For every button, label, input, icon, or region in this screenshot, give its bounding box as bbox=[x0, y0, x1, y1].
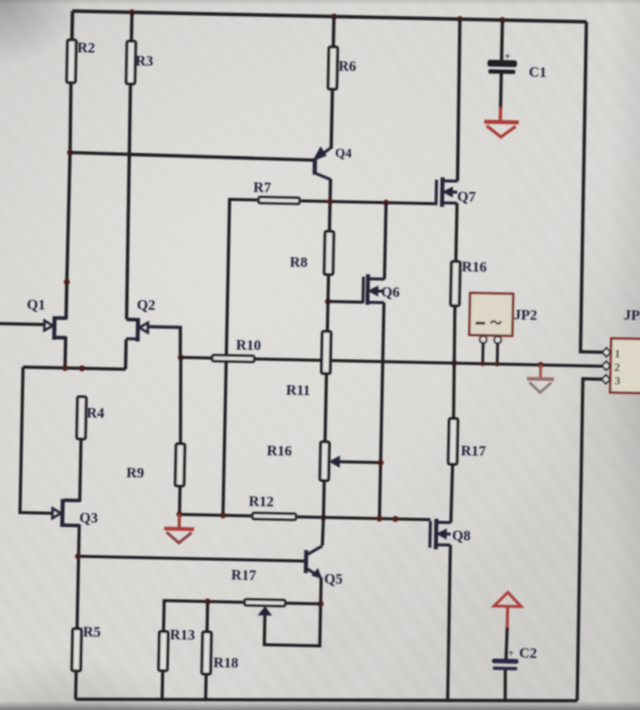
wire: R9 bottom to R12 ground row bbox=[178, 487, 182, 514]
ground under R9 bbox=[178, 514, 181, 528]
capacitor C2 (polarized electrolytic) bbox=[492, 658, 519, 663]
connector JP3 (3-pin header at right edge) bbox=[610, 338, 640, 393]
node junction output row / ground tap bbox=[538, 362, 544, 368]
resistor R5 (vertical) bbox=[72, 629, 81, 671]
wire: Q5 collector column from R12 node bbox=[322, 517, 323, 545]
resistor R17 (vertical) bbox=[448, 419, 458, 465]
wire: Q7 source down to R16 bbox=[456, 203, 457, 260]
wire: R5 bottom to bottom rail bbox=[74, 672, 78, 699]
transistor Q4 (PNP, emitter up to R6) bbox=[313, 158, 318, 174]
wire: R18 top lead bbox=[206, 602, 210, 631]
node junction tail row / Q1 source bbox=[62, 365, 68, 371]
node junction top rail / C1 bbox=[499, 17, 505, 23]
wire: R9 column from R10 node down to ground row bbox=[179, 357, 182, 442]
pin 2 of JP2 bbox=[494, 336, 501, 343]
transistor Q2 (JFET, gate right, mirrored) bbox=[136, 318, 140, 341]
wire: Q1 drain stub and up to node A bbox=[56, 284, 67, 318]
resistor R2 (vertical) bbox=[67, 40, 76, 83]
node junction Q2 gate / R10 / R9 top bbox=[178, 354, 184, 360]
resistor R11 (vertical) bbox=[321, 331, 330, 373]
resistor R12 (horizontal) bbox=[252, 513, 296, 520]
pin 1 of JP3 bbox=[602, 348, 611, 357]
node junction pot row / R18 top bbox=[205, 598, 211, 604]
wire: Q3 source to R5 top and Q5 base row bbox=[62, 525, 80, 627]
resistor R16 (vertical) bbox=[451, 262, 461, 306]
wire: Q7 drain column up to top rail bbox=[457, 19, 461, 181]
wire: Q5 emitter column down to wiper loop bbox=[264, 577, 321, 646]
wire: R4 bottom to Q3 drain bbox=[64, 440, 81, 500]
wire: R16 pot wiper to Q6 source column bbox=[339, 460, 380, 464]
node junction top rail / Q7 drain bbox=[457, 16, 463, 22]
node junction top rail / R3 bbox=[129, 9, 135, 15]
node junction tail row / R4 top bbox=[79, 365, 85, 371]
resistor R4 (vertical) bbox=[77, 397, 86, 439]
node junction R12 row / R7 column bbox=[220, 512, 226, 518]
node junction R8 bottom / Q6 gate / R11 top bbox=[325, 298, 331, 304]
wire: Q4 base wire from left column to Q4 bbox=[70, 153, 313, 161]
wire: R3 bottom down to Q2 drain (crosses Q4 base wire) bbox=[126, 85, 132, 319]
wire: R17 bottom to Q8 drain bbox=[451, 466, 453, 523]
wire: left rail from top rail down through R2 column to Q1 drain bbox=[70, 11, 74, 38]
wire: R7 net - left corner column down to R12 row bbox=[223, 199, 257, 516]
wire: Q2 gate lead right and down to R10 node bbox=[146, 327, 181, 358]
wire: C2 bottom lead to ground rail bbox=[505, 670, 506, 701]
potentiometer R17 (bottom, with wiper arrow) bbox=[245, 599, 286, 606]
resistor R10 (horizontal) bbox=[212, 355, 254, 362]
node junction output row / R16-R17 column bbox=[451, 360, 457, 366]
node junction Q3 source column / Q5 base wire bbox=[75, 553, 81, 559]
wire: R2 bottom down to Q4-base tap and Q1 drain bbox=[66, 84, 71, 318]
wire: Q3 gate lead and column up to tail row bbox=[20, 367, 56, 513]
node A on R2 column above Q1 bbox=[64, 279, 70, 285]
wire: pot R17 row from R13 top through pot to Q5 emitter column bbox=[164, 601, 321, 634]
node junction R12 row / R16 pot bottom / Q5 collector bbox=[320, 514, 326, 520]
transistor Q7 (MOSFET) bbox=[435, 180, 439, 205]
node junction R2 column / Q4 base wire bbox=[67, 149, 73, 155]
wire: top power rail bbox=[72, 11, 586, 22]
wire: right rail from top rail to JP3 pin1 bbox=[579, 22, 609, 352]
transistor Q8 (MOSFET) bbox=[428, 521, 432, 547]
wire: JP2 pin leads to output row bbox=[481, 343, 484, 364]
transistor Q6 (MOSFET) bbox=[361, 277, 365, 303]
node junction pot row / Q5 emitter column bbox=[318, 601, 324, 607]
resistor R18 (vertical) bbox=[202, 632, 211, 674]
resistor R6 (vertical) bbox=[328, 47, 337, 89]
node junction top rail / R6 bbox=[331, 13, 337, 19]
resistor R7 (horizontal) bbox=[259, 197, 300, 204]
wire: R12 right to Q8 gate bbox=[297, 517, 430, 520]
pin 2 of JP3 bbox=[602, 362, 611, 371]
wire: tail row joining Q1,Q2 sources, R4 top and Q3 gate column bbox=[23, 367, 125, 369]
wire: Q4 collector column down to R7 line and R8 top bbox=[329, 179, 330, 230]
transistor Q1 (JFET, gate left) bbox=[52, 316, 56, 339]
wire: Q2 source stub down to tail row bbox=[124, 339, 128, 369]
wire: R3 top lead bbox=[130, 12, 134, 39]
ground on output row (near JP2) bbox=[539, 365, 542, 379]
ground under C1 bbox=[484, 120, 518, 125]
node junction R12 row (stub) bbox=[392, 516, 398, 522]
wire: bottom ground rail bbox=[76, 690, 578, 710]
wire: Q1 gate lead from left edge bbox=[0, 324, 44, 325]
power symbol above C2 (arrow up) bbox=[494, 592, 521, 607]
potentiometer R16 (mid, with wiper arrow) bbox=[320, 442, 329, 481]
wire: R16 top resistor bottom to R17 top (right column) bbox=[453, 307, 456, 417]
pin 1 of JP2 bbox=[480, 336, 487, 343]
wire: Q5 base row bbox=[78, 556, 305, 561]
wire: R16 pot bottom to R12 row bbox=[322, 482, 326, 517]
wire: Q6 gate lead from R8/R11 column bbox=[328, 300, 363, 304]
wire: Q6 source column down across output row to wiper node and R12 row bbox=[379, 303, 384, 519]
node junction R7 line / Q6 drain column bbox=[383, 200, 389, 206]
wire: R6 bottom to Q4 emitter column bbox=[331, 91, 332, 149]
wire: output row v355 from R10 through R11 to JP3 pin2 bbox=[181, 357, 602, 366]
capacitor C1 (polarized electrolytic) bbox=[487, 60, 517, 67]
wire: power arrow to C2 plus plate bbox=[506, 627, 507, 659]
wire: R18 bottom to bottom rail bbox=[204, 675, 208, 699]
resistor R3 (vertical) bbox=[126, 41, 135, 84]
transistor Q3 (JFET, gate left) bbox=[60, 499, 65, 527]
wire: R7 right to Q6 drain node and Q7 gate bbox=[301, 201, 436, 204]
connector JP2 (bridge box) bbox=[469, 293, 513, 336]
wire: R8 bottom to R11 top bbox=[327, 276, 328, 330]
resistor R8 (vertical) bbox=[324, 231, 333, 274]
wire: JP3 pin3 down right rail to bottom rail bbox=[576, 379, 602, 701]
node junction R9 / ground symbol / R12 row bbox=[176, 511, 182, 517]
node junction R12 row / Q6 source column bbox=[376, 516, 382, 522]
pin 3 of JP3 bbox=[602, 375, 611, 384]
wire: Q1 source stub down to tail row bbox=[55, 338, 66, 368]
wire: R11 bottom to R16 pot top bbox=[325, 375, 326, 440]
transistor Q5 (NPN) bbox=[304, 550, 308, 573]
node junction R7 line / Q4-R8 column bbox=[327, 198, 333, 204]
wire: R6 top lead bbox=[332, 17, 336, 46]
wire: R13 bottom to bottom rail bbox=[161, 672, 165, 699]
wire: Q2 drain stub up to R3 column bbox=[127, 318, 136, 321]
wire: R12 ground row bbox=[179, 514, 250, 515]
wire: Q6 drain column up to R7 line bbox=[384, 203, 386, 279]
wire: C1 bottom lead bbox=[499, 74, 503, 109]
node junction wiper wire / Q6 source column bbox=[378, 460, 384, 466]
resistor R9 (vertical) bbox=[175, 444, 184, 486]
resistor R13 (vertical) bbox=[159, 632, 168, 671]
wire: Q8 source down to bottom rail bbox=[447, 545, 451, 700]
wire: C1 top lead from rail bbox=[500, 20, 504, 60]
